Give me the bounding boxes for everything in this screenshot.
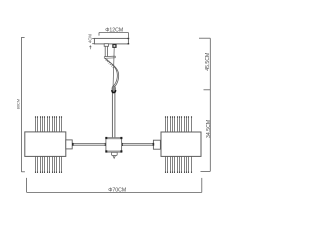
stem tube (112, 92, 115, 137)
right arm joint dot (153, 143, 155, 146)
threaded rod (105, 46, 107, 56)
right shade drum body (161, 132, 201, 156)
left shade pleat end beads (35, 116, 62, 173)
hub bottom cap band (106, 151, 122, 153)
right shade pleat end beads (165, 116, 192, 173)
left socket (66, 140, 72, 149)
right split dimension (199, 38, 210, 171)
svg-text:Φ12CM: Φ12CM (105, 27, 123, 33)
left shade drum body (25, 132, 66, 157)
cord grip connector (112, 86, 116, 92)
hub corner rivets (105, 137, 122, 153)
hub bottom finial cup (112, 152, 118, 155)
left arm joint dot (72, 143, 74, 146)
overall width dimension (bottom) (27, 178, 202, 193)
canopy height arrow (90, 46, 92, 50)
suspension wire (113, 48, 114, 86)
power cord S-loop (105, 59, 117, 87)
right socket (153, 140, 160, 149)
cord clamp bar (104, 56, 115, 58)
hub top cap band (106, 137, 122, 139)
dim line phi12 (99, 33, 128, 39)
rod nut below canopy (104, 44, 108, 47)
canopy right corner dots (128, 38, 130, 45)
hub arm junction dots (105, 143, 123, 146)
canopy edge overshoot ticks (92, 38, 94, 43)
svg-text:80CM: 80CM (16, 99, 21, 109)
canopy plate (94, 38, 128, 44)
central hub body (106, 138, 122, 153)
finial tip (113, 156, 116, 159)
svg-text:34.5CM: 34.5CM (206, 120, 212, 138)
svg-text:45.5CM: 45.5CM (205, 53, 211, 71)
cable gland block (112, 44, 116, 48)
overall height dimension (left) (21, 37, 25, 171)
left arm tubes (72, 143, 106, 145)
svg-text:Φ70CM: Φ70CM (108, 188, 126, 194)
right shade pleat hatch (166, 117, 192, 173)
cord grip dark ring (112, 90, 116, 93)
svg-text:4CM: 4CM (88, 34, 93, 43)
cord coil ticks (106, 59, 115, 68)
left shade pleat hatch (36, 117, 62, 173)
right arm tubes (122, 143, 154, 145)
